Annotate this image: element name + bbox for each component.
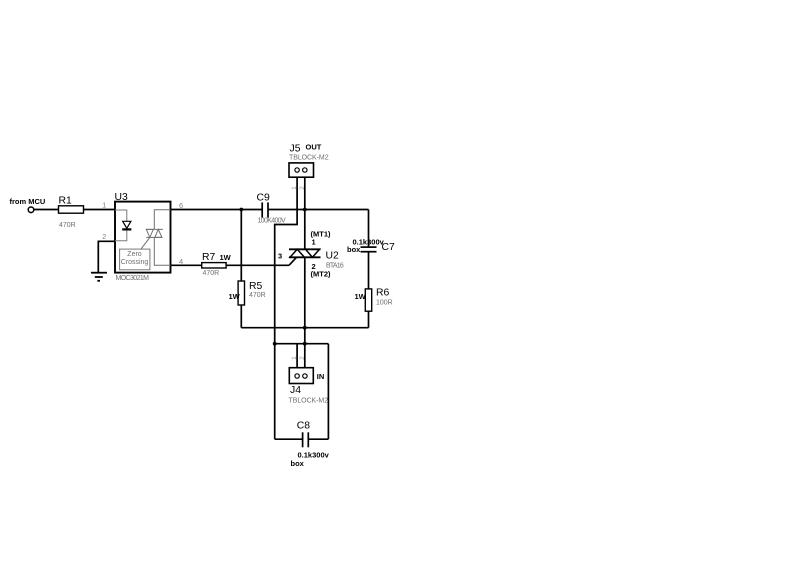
wire U3 internal LED cathode branch	[115, 229, 127, 241]
wire J4 pin 1	[296, 344, 298, 368]
svg-text:R5: R5	[249, 281, 263, 292]
svg-text:R6: R6	[376, 288, 390, 299]
svg-text:100R: 100R	[376, 300, 393, 307]
ground	[91, 272, 107, 274]
svg-text:1W: 1W	[355, 292, 367, 301]
svg-text:J4: J4	[290, 385, 301, 396]
svg-text:2: 2	[102, 232, 106, 241]
svg-text:R7: R7	[202, 252, 216, 263]
wire top rail to C7	[368, 210, 370, 248]
svg-text:1: 1	[312, 238, 316, 247]
svg-text:1: 1	[291, 356, 298, 360]
svg-text:from MCU: from MCU	[10, 197, 46, 206]
svg-text:Crossing: Crossing	[121, 259, 149, 266]
capacitor C8	[302, 432, 304, 447]
node junction J4 pin 2 net	[303, 342, 307, 346]
svg-text:6: 6	[179, 201, 183, 210]
node Zero Crossing block	[120, 249, 150, 270]
svg-text:TBLOCK-M2: TBLOCK-M2	[289, 398, 329, 405]
wire U3 pin 4 to R7	[171, 264, 202, 266]
svg-text:MOC3021M: MOC3021M	[116, 275, 150, 282]
transistor internal photo-triac of U3	[146, 229, 163, 237]
wire right side of C8 loop	[327, 344, 329, 440]
svg-text:TBLOCK-M2: TBLOCK-M2	[289, 155, 329, 162]
wire terminal to R1	[34, 209, 59, 211]
svg-text:(MT2): (MT2)	[311, 270, 331, 279]
resistor R1	[59, 206, 84, 213]
transistor U2 triac	[289, 248, 321, 250]
wire C7 to R6	[368, 252, 370, 289]
wire R1 to U3 pin 1	[84, 209, 116, 211]
svg-text:IN: IN	[317, 372, 325, 381]
wire R7 to U2 gate	[226, 264, 289, 266]
svg-text:2: 2	[299, 356, 306, 360]
wire U3 internal triac MT top	[154, 210, 170, 230]
wire U3 pin 6 to C9	[171, 209, 263, 211]
wire J5 pin 1 down and left to C8 loop	[275, 177, 297, 344]
svg-text:1: 1	[102, 200, 106, 209]
wire U3 internal LED anode branch	[115, 210, 127, 221]
svg-text:R1: R1	[59, 196, 73, 207]
svg-text:box: box	[347, 245, 361, 254]
svg-text:box: box	[291, 459, 305, 468]
svg-text:BTA16: BTA16	[326, 263, 344, 270]
wire R6 to bottom rail	[368, 311, 370, 328]
svg-text:OUT: OUT	[306, 143, 322, 152]
op-amp U3 optocoupler body	[115, 202, 171, 273]
node junction R5 branch	[239, 208, 243, 212]
wire bottom rail	[241, 327, 368, 329]
wire U3 pin 2 to ground	[98, 241, 115, 272]
capacitor C7	[361, 246, 377, 248]
node junction MT2 net on bottom rail	[303, 326, 307, 330]
wire gate diagonal into U2	[289, 257, 297, 265]
connector J4	[289, 368, 313, 384]
wire J4 pin 2	[304, 344, 306, 368]
resistor R6	[365, 289, 371, 311]
wire left side of C8 loop	[274, 344, 276, 440]
svg-text:470R: 470R	[203, 270, 220, 277]
wire U3 internal triac MT bottom	[154, 237, 170, 265]
wire R5 branch vertical	[240, 210, 242, 282]
svg-text:C8: C8	[297, 421, 311, 432]
wire C9 to top right corner	[268, 209, 369, 211]
wire U2 MT2 down to J4 rail	[304, 257, 306, 343]
wire J5 pin 2 down to triac MT1	[304, 177, 306, 249]
svg-text:Zero: Zero	[127, 251, 142, 258]
capacitor C9	[261, 202, 263, 217]
svg-text:1W: 1W	[220, 253, 232, 262]
node from MCU input terminal	[28, 207, 34, 213]
diode LED inside U3	[123, 221, 131, 228]
svg-text:C9: C9	[257, 192, 271, 203]
svg-text:U2: U2	[326, 251, 340, 262]
svg-text:3: 3	[278, 252, 282, 261]
resistor R7	[202, 263, 226, 268]
svg-text:1W: 1W	[229, 292, 241, 301]
node junction left of J4 rail	[273, 342, 277, 346]
wire R5 to bottom rail	[240, 305, 242, 328]
svg-text:470R: 470R	[249, 292, 266, 299]
wire internal gate to zero crossing block	[141, 237, 150, 249]
connector J5	[289, 163, 314, 177]
svg-text:470R: 470R	[59, 222, 76, 229]
node junction J5 pin 2 net	[303, 208, 307, 212]
svg-text:J5: J5	[290, 143, 301, 154]
wire J4 header rail	[275, 343, 329, 345]
svg-text:U3: U3	[115, 192, 129, 203]
resistor R5	[238, 281, 244, 305]
